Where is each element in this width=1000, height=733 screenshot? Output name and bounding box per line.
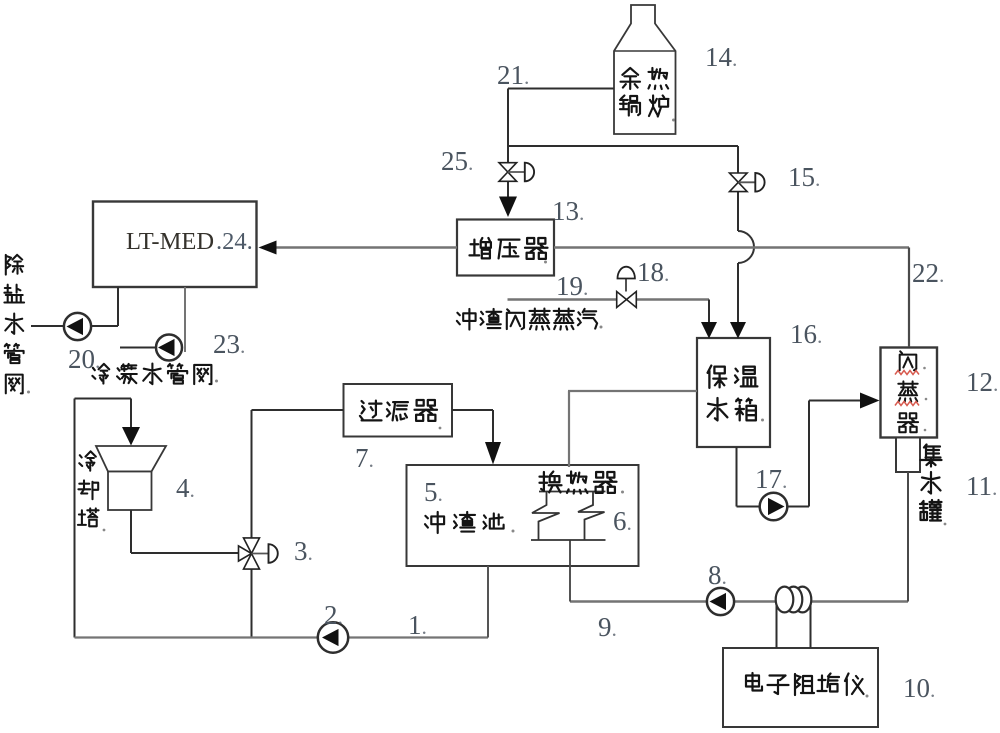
wire: valve 3 down to suction line (251, 569, 253, 638)
insulated water tank 16 (box) (697, 338, 770, 447)
wire: branch down to valve 15 (737, 146, 739, 173)
wire: filter outlet to pool (452, 410, 493, 443)
label 13 (552, 196, 584, 226)
label 9 (598, 612, 617, 642)
wire: return top run (75, 398, 132, 400)
wire: demineralized water grid to pump 20 (31, 325, 64, 327)
svg-text:17.: 17. (755, 464, 787, 494)
label 22 (912, 258, 944, 288)
svg-text:6.: 6. (613, 506, 632, 536)
pump 2 (318, 622, 348, 652)
svg-text:18.: 18. (637, 257, 669, 287)
svg-text:14.: 14. (705, 42, 737, 72)
pipe: heat exchanger return line 9 (570, 600, 908, 603)
label 14 (705, 42, 737, 72)
label 6 (613, 506, 632, 536)
arrow into flash evaporator (860, 393, 880, 409)
label: slag flushing flash steam (457, 309, 597, 330)
svg-text:3.: 3. (294, 536, 313, 566)
label 2 (324, 600, 343, 630)
svg-text:19.: 19. (556, 271, 588, 301)
pump 8 (707, 588, 734, 615)
svg-text:5.: 5. (424, 477, 443, 507)
valve 25 (499, 163, 534, 182)
label 23 (213, 329, 245, 359)
label 21 (497, 60, 529, 90)
label 12 (966, 367, 998, 397)
three-way valve 3 (239, 538, 278, 569)
waste heat boiler 14 (bottle shape) (614, 5, 676, 134)
pump 20 (64, 313, 91, 340)
svg-text:2.: 2. (324, 600, 343, 630)
label 25 (441, 146, 473, 176)
pipe: booster to flash evaporator line 22 horizontal (554, 246, 909, 248)
wire: hop down to tank arrow (737, 263, 739, 323)
pipe: pool suction line 1 (75, 636, 489, 638)
wire: line 21 vertical drop (507, 89, 509, 163)
wire: valve 3 up to filter (252, 410, 344, 538)
svg-text:20.: 20. (68, 344, 100, 374)
svg-text:22.: 22. (912, 258, 944, 288)
arrow into tank (right) (730, 322, 746, 339)
label 1 (408, 610, 427, 640)
pipe: line 22 vertical to flash evaporator (908, 248, 910, 348)
svg-text:7.: 7. (355, 443, 374, 473)
label 18 (637, 257, 669, 287)
booster 13 (box) (457, 220, 554, 276)
filter 7 (box) (344, 384, 453, 437)
label 5 (424, 477, 443, 507)
cooling tower 4 (78, 446, 166, 526)
svg-text:21.: 21. (497, 60, 529, 90)
label 16 (790, 319, 822, 349)
wire: left return riser (74, 399, 76, 638)
pipe: line 19 after valve 18 (637, 298, 710, 301)
svg-text:15.: 15. (788, 162, 820, 192)
pipe: LT-MED condensate drop to pump 23 (184, 287, 186, 352)
pipe: collection tank drop to line 9 (907, 472, 909, 602)
wire: condensate grid to pump 23 (120, 347, 156, 349)
arrow into pool (485, 442, 501, 465)
svg-text:10.: 10. (903, 673, 935, 703)
slag flushing pool 5 (box) (407, 465, 639, 566)
red squiggle under 蒸 (895, 402, 919, 406)
LT-MED unit 24 (box) (93, 202, 257, 288)
svg-text:13.: 13. (552, 196, 584, 226)
pump 17 (760, 493, 788, 521)
svg-text:11.: 11. (966, 471, 997, 501)
wire: line 19 drop to tank (708, 300, 710, 324)
pipe: booster to LT-MED (steam) with arrow (259, 241, 458, 255)
electronic scale inhibitor 10 (box) (723, 648, 878, 727)
wire: pump 17 to flash evaporator (788, 401, 862, 507)
label 11 (966, 471, 997, 501)
wire: valve 15 to crossing hop (737, 192, 739, 232)
label 19 (556, 271, 588, 301)
valve 15 (730, 173, 765, 192)
wire: boiler steam line 21 horizontal (508, 88, 614, 90)
flash evaporator 12 (box) (881, 348, 938, 438)
pump 23 (156, 335, 182, 361)
svg-text:8.: 8. (708, 560, 727, 590)
wire: drop into cooling tower (130, 399, 132, 429)
pipe: line 1 riser into pool (487, 566, 489, 638)
arrow into tank (left) (701, 322, 717, 339)
label 8 (708, 560, 727, 590)
pipe: riser to tank inlet (568, 390, 697, 392)
svg-text:1.: 1. (408, 610, 427, 640)
wire: tank 16 outlet to pump 17 (737, 447, 761, 507)
pipe: heat exchanger steam riser (568, 391, 570, 492)
slag pool label (425, 512, 504, 533)
heat exchanger 6 symbol (531, 492, 606, 541)
svg-text:4.: 4. (176, 473, 195, 503)
label: condensate pipe network (92, 364, 211, 385)
wire: header from line 21 to valve 15 branch (508, 145, 738, 147)
svg-text:.24.: .24. (216, 228, 253, 255)
crossing hop over steam pipe (738, 231, 754, 263)
svg-text:12.: 12. (966, 367, 998, 397)
label 7 (355, 443, 374, 473)
label 17 (755, 464, 787, 494)
svg-text:25.: 25. (441, 146, 473, 176)
wire: pump 20 to LT-MED (91, 287, 118, 326)
heat exchanger label (534, 467, 624, 494)
svg-text:LT-MED: LT-MED (126, 228, 214, 255)
svg-text:23.: 23. (213, 329, 245, 359)
wire: valve 25 outlet (507, 182, 509, 198)
label 15 (788, 162, 820, 192)
pipe: heat exchanger drop (569, 540, 571, 602)
inline coil of scale inhibitor (776, 587, 812, 613)
label 10 (903, 673, 935, 703)
wire: cooling tower outlet (131, 510, 239, 553)
red squiggle under 闪 (895, 371, 919, 375)
scan artifact dots (27, 119, 946, 698)
valve 18 with dome actuator (617, 267, 637, 308)
label 3 (294, 536, 313, 566)
pipe: slag flash steam line 19 (508, 298, 617, 301)
label 20 (68, 344, 100, 374)
label: demineralized water pipe network (4, 255, 24, 394)
svg-text:9.: 9. (598, 612, 617, 642)
arrow into booster (499, 197, 517, 218)
svg-text:16.: 16. (790, 319, 822, 349)
label 4 (176, 473, 195, 503)
wire: scale inhibitor coil taps (777, 603, 811, 648)
water collection tank 11 (box) (896, 438, 942, 521)
arrow into cooling tower (122, 427, 140, 446)
